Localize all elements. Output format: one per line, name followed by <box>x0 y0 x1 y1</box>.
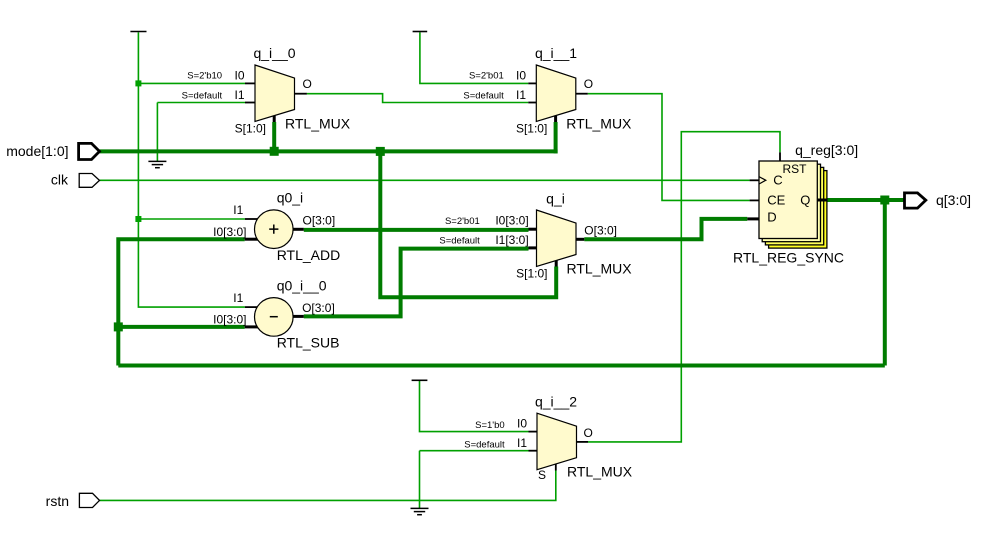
node junction bus at q_i__0 S <box>270 147 279 156</box>
svg-text:q0_i: q0_i <box>277 190 303 206</box>
wire Q to q port <box>827 198 905 202</box>
svg-text:RTL_MUX: RTL_MUX <box>567 261 633 277</box>
pin q_i__0 I0 stub <box>245 82 255 84</box>
pin SUB O stub <box>293 315 304 318</box>
op-amp-mux q_i__1 RTL_MUX <box>536 65 576 122</box>
power VCC2 <box>413 31 428 33</box>
svg-text:q_i__0: q_i__0 <box>253 45 295 61</box>
svg-text:I0: I0 <box>516 69 526 83</box>
svg-text:RTL_MUX: RTL_MUX <box>566 116 632 132</box>
svg-text:S: S <box>538 468 546 482</box>
WIRES-THIN <box>100 32 781 508</box>
pin reg Q stub <box>817 199 827 202</box>
pin q_i__2 S stub <box>555 464 557 471</box>
svg-text:I1: I1 <box>516 88 526 102</box>
svg-text:I0[3:0]: I0[3:0] <box>213 225 246 239</box>
svg-text:O[3:0]: O[3:0] <box>302 301 335 315</box>
pin q_i__2 I0 stub <box>529 431 538 433</box>
svg-text:S[1:0]: S[1:0] <box>235 121 266 135</box>
svg-text:S=2'b01: S=2'b01 <box>445 216 480 227</box>
pin q_i I0 stub <box>529 228 537 231</box>
svg-text:I0[3:0]: I0[3:0] <box>495 214 528 228</box>
wire Q feedback vertical <box>883 200 887 366</box>
POWER/GROUND <box>130 32 428 515</box>
wire VCC3 stem to q_i__2 I0 <box>420 381 529 432</box>
pin SUB I1 stub <box>245 306 258 308</box>
svg-text:mode[1:0]: mode[1:0] <box>6 143 68 159</box>
pin q_i__0 O stub <box>295 93 307 95</box>
svg-text:I1: I1 <box>234 88 244 102</box>
wire clk net <box>100 179 750 181</box>
pin ADD I1 stub <box>245 218 258 220</box>
pin ADD I0 stub <box>245 238 258 241</box>
svg-text:q0_i__0: q0_i__0 <box>277 278 327 294</box>
wire q_i O to D <box>584 219 747 239</box>
pin q_i__1 S stub <box>554 116 557 122</box>
op-amp-mux q_i RTL_MUX <box>537 210 577 267</box>
svg-text:O[3:0]: O[3:0] <box>303 213 336 227</box>
wire q_i__2 I1 <box>420 450 529 452</box>
wire SUB I0 branch <box>118 325 244 329</box>
wire q_i__2 O to RST <box>588 132 780 442</box>
wire q_i__1 O to CE <box>588 94 750 201</box>
svg-text:rstn: rstn <box>46 493 69 509</box>
port output q[3:0] <box>905 193 926 208</box>
op-amp-mux q_i__0 RTL_MUX <box>255 65 295 122</box>
svg-text:D: D <box>767 210 776 225</box>
wire VCC1 stem to I0 of q_i__0 and down to adders <box>138 32 245 307</box>
pin q_i__1 I0 stub <box>528 82 536 84</box>
svg-text:S[1:0]: S[1:0] <box>516 121 547 135</box>
svg-text:RTL_ADD: RTL_ADD <box>277 247 341 263</box>
wire q_i__0 S to bus <box>272 122 276 151</box>
wire q_i__0 I0 <box>138 82 245 84</box>
register q_reg[3:0] RTL_REG_SYNC <box>759 161 827 248</box>
svg-text:C: C <box>773 173 782 188</box>
wire SUB O to q_i I1 <box>304 249 529 317</box>
svg-text:I0: I0 <box>234 69 244 83</box>
svg-text:O[3:0]: O[3:0] <box>584 224 617 238</box>
power VCC1 <box>130 31 146 33</box>
WIRES-THICK <box>100 122 905 366</box>
svg-text:I1: I1 <box>233 291 243 305</box>
pin q_i__0 S stub <box>273 116 276 122</box>
ground G1 <box>148 161 166 167</box>
wire ground G2 stem <box>419 451 421 509</box>
svg-text:q_i__2: q_i__2 <box>535 394 577 410</box>
pin reg RST stub <box>779 152 781 161</box>
power VCC3 <box>412 379 428 381</box>
op-amp-mux q_i__2 RTL_MUX <box>537 413 577 470</box>
wire rstn net to S of q_i__2 <box>100 471 556 501</box>
pin q_i__2 I1 stub <box>529 450 538 452</box>
wire q_i__0 O to q_i__1 I1 <box>307 94 528 103</box>
wire ADD O to q_i I0 <box>304 228 529 232</box>
svg-text:q_reg[3:0]: q_reg[3:0] <box>795 142 858 158</box>
pin reg C stub <box>750 179 759 181</box>
svg-text:I1: I1 <box>233 203 243 217</box>
pin ADD O stub <box>293 228 304 231</box>
svg-text:RTL_SUB: RTL_SUB <box>277 335 340 351</box>
svg-text:clk: clk <box>51 172 69 188</box>
wire mode bus <box>100 149 558 153</box>
wire bottom feedback bus <box>118 364 885 368</box>
wire VCC2 stem to q_i__1 I0 <box>420 32 528 83</box>
svg-text:CE: CE <box>767 192 785 207</box>
pin reg D stub <box>747 217 759 220</box>
wire ADD I0 feedback <box>118 239 244 365</box>
wire bus branch to q_i S <box>380 151 556 297</box>
JUNCTIONS <box>135 80 141 222</box>
node junction I0/VCC <box>135 80 141 86</box>
svg-text:S=2'b10: S=2'b10 <box>187 71 222 82</box>
adder q0_i RTL_ADD <box>254 210 293 249</box>
svg-text:O: O <box>584 426 593 440</box>
node junction q net <box>880 196 889 205</box>
ground G2 <box>411 508 429 514</box>
wire ground G1 stem <box>156 103 158 162</box>
pin reg C clock wedge <box>759 177 766 184</box>
port input clk <box>79 174 99 188</box>
port input rstn <box>79 493 99 507</box>
port input mode[1:0] <box>79 143 100 159</box>
pin q_i__2 O stub <box>577 441 589 443</box>
pin q_i__0 I1 stub <box>245 102 255 104</box>
node junction ADD I1 <box>135 216 141 222</box>
node junction SUB I0 <box>114 322 123 331</box>
pin SUB I0 stub <box>245 325 258 328</box>
PIN STUBS (black) <box>245 83 780 470</box>
svg-text:RST: RST <box>783 162 808 176</box>
pin q_i__1 O stub <box>576 93 588 95</box>
svg-text:I0: I0 <box>517 417 527 431</box>
subtractor q0_i__0 RTL_SUB <box>254 298 293 337</box>
svg-text:S=2'b01: S=2'b01 <box>469 71 504 82</box>
svg-text:S=default: S=default <box>464 439 505 450</box>
pin q_i I1 stub <box>529 246 537 249</box>
svg-text:q[3:0]: q[3:0] <box>936 192 971 208</box>
wire q_i__1 S to bus <box>554 122 558 153</box>
svg-text:I0[3:0]: I0[3:0] <box>213 313 246 327</box>
svg-text:S=default: S=default <box>182 90 223 101</box>
svg-text:O: O <box>303 77 312 91</box>
svg-text:RTL_MUX: RTL_MUX <box>567 464 633 480</box>
svg-text:I1: I1 <box>517 436 527 450</box>
svg-text:I1[3:0]: I1[3:0] <box>495 233 528 247</box>
pin q_i O stub <box>576 238 584 241</box>
wire q_i__0 I1 <box>157 102 245 104</box>
wire ADD I1 <box>138 218 245 220</box>
svg-text:q_i: q_i <box>546 190 565 206</box>
svg-text:RTL_MUX: RTL_MUX <box>285 116 351 132</box>
svg-text:O: O <box>584 77 593 91</box>
svg-text:S=1'b0: S=1'b0 <box>475 420 505 431</box>
svg-text:S=default: S=default <box>439 236 480 247</box>
svg-text:RTL_REG_SYNC: RTL_REG_SYNC <box>733 249 844 265</box>
svg-text:q_i__1: q_i__1 <box>535 45 577 61</box>
svg-text:Q: Q <box>800 192 810 207</box>
pin q_i__1 I1 stub <box>528 102 536 104</box>
svg-text:S[1:0]: S[1:0] <box>516 266 547 280</box>
svg-text:S=default: S=default <box>463 90 504 101</box>
pin q_i S stub <box>555 261 558 267</box>
pin reg CE stub <box>750 199 759 201</box>
node junction bus at branch <box>376 147 385 156</box>
